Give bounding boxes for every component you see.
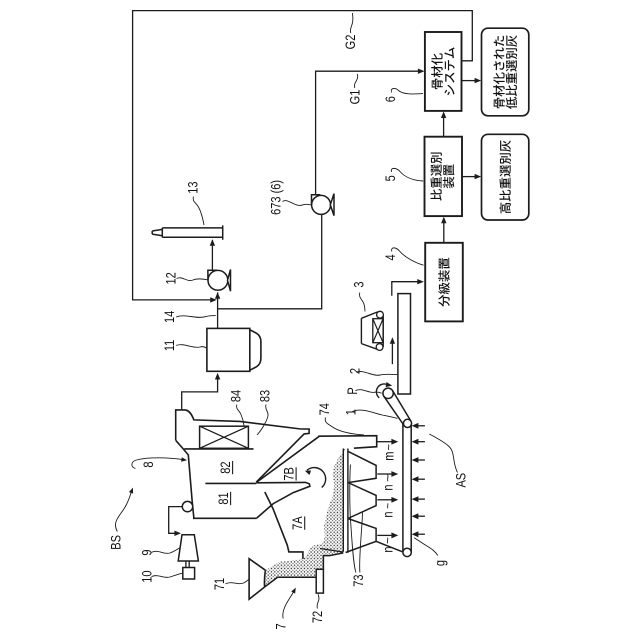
- svg-text:81: 81: [216, 492, 231, 504]
- heat exchanger 84 (crossed box): [200, 426, 249, 448]
- box 6 aggregation system (骨材化システム): [425, 32, 462, 111]
- rounded box high-gravity ash (高比重選別灰): [482, 134, 529, 220]
- chute floor and ram guide outline: [265, 553, 344, 587]
- label AS: [429, 434, 469, 488]
- burner 9: [178, 535, 198, 568]
- svg-text:g: g: [432, 560, 447, 566]
- partition between chambers 81 and 82: [205, 482, 256, 484]
- label 5: [383, 168, 424, 181]
- svg-text:2: 2: [347, 368, 362, 374]
- label 10: [139, 570, 182, 582]
- svg-text:13: 13: [185, 181, 200, 193]
- wire conveyor 2 to classifier 4: [392, 279, 424, 296]
- label g: [414, 538, 448, 566]
- svg-text:AS: AS: [453, 473, 468, 488]
- label 84: [228, 390, 244, 426]
- label 12: [163, 272, 207, 284]
- waste layer bottom boundary line: [320, 549, 343, 553]
- label 1: [343, 409, 397, 418]
- wire duct 14 branch to fan 673: [218, 215, 322, 309]
- label 82: [218, 461, 233, 474]
- front wall 74 and chute 7A wall: [256, 436, 319, 559]
- label G2: [343, 13, 358, 49]
- label m: [381, 445, 396, 461]
- ram 72 (pusher): [316, 569, 323, 593]
- box 5 specific gravity separator (比重選別装置): [425, 137, 463, 216]
- feed table header 74: [318, 436, 376, 449]
- grate conveyor (capsule below furnace): [403, 424, 411, 557]
- label n (3): [380, 538, 395, 553]
- label 11: [162, 340, 206, 351]
- wire arrow box 5 to high-gravity ash box: [462, 174, 481, 179]
- label 3: [351, 281, 366, 311]
- label BS with long arrow: [108, 488, 133, 550]
- svg-text:12: 12: [163, 272, 178, 284]
- svg-text:3: 3: [351, 281, 366, 287]
- svg-text:71: 71: [212, 578, 227, 590]
- furnace 8 boiler outline (top stub and roof): [176, 410, 301, 440]
- feeder 3 (vibrating feeder): [361, 311, 383, 350]
- conveyor 1 (ash discharge conveyor, inclined capsule): [384, 391, 412, 428]
- svg-text:14: 14: [162, 311, 177, 323]
- label 6: [383, 88, 423, 102]
- svg-text:11: 11: [162, 340, 177, 351]
- fan 12 (induced draft fan): [208, 270, 231, 292]
- wire G2 recirculation duct loop: [133, 11, 473, 303]
- label 72: [310, 594, 325, 623]
- label 673(6): [268, 180, 311, 215]
- label 7 with arrow: [273, 588, 296, 630]
- wire arrow separator 5 to aggregation 6: [441, 111, 446, 136]
- rear arch nose 7B (wedge): [256, 482, 310, 518]
- svg-text:G1: G1: [347, 90, 362, 105]
- wire burner air duct: [169, 507, 183, 536]
- furnace roof tip block and inner roof slant: [256, 429, 309, 482]
- svg-text:m: m: [381, 452, 396, 461]
- wire flue duct from dust collector 11 up to fan 12 inlet: [215, 292, 220, 328]
- wire flue furnace 8 to dust collector 11: [182, 373, 221, 410]
- label 7A: [290, 516, 305, 530]
- svg-text:P: P: [345, 387, 360, 394]
- interior ceiling line of boiler pass: [184, 448, 253, 450]
- svg-text:n: n: [380, 511, 395, 517]
- svg-text:82: 82: [218, 461, 233, 473]
- fuel unit 10: [183, 568, 195, 580]
- label G1: [347, 74, 362, 104]
- svg-text:G2: G2: [343, 35, 358, 50]
- label 4: [383, 248, 423, 265]
- secondary air port circle on furnace wall: [182, 501, 192, 511]
- label 2: [347, 368, 397, 375]
- svg-text:7: 7: [273, 623, 288, 629]
- feed hopper 71 (funnel): [249, 559, 265, 600]
- svg-text:72: 72: [310, 611, 325, 623]
- svg-text:8: 8: [141, 461, 156, 467]
- label 81: [216, 492, 231, 505]
- svg-text:4: 4: [383, 254, 398, 260]
- pulley P (head pulley): [383, 388, 393, 398]
- label P: [345, 387, 382, 394]
- label n (2): [380, 503, 395, 517]
- label 83: [257, 390, 273, 435]
- label 9: [139, 548, 179, 556]
- label 71: [212, 578, 249, 590]
- svg-text:73: 73: [351, 574, 366, 586]
- svg-text:5: 5: [383, 175, 398, 181]
- box 4 classifier (分級装置): [425, 243, 463, 322]
- svg-text:BS: BS: [108, 535, 123, 550]
- grate double line: [343, 449, 348, 553]
- svg-text:7B: 7B: [281, 467, 296, 481]
- wire arrow box 6 to aggregated ash box: [462, 78, 482, 83]
- svg-text:7A: 7A: [290, 516, 305, 530]
- waste layer stipple region: [265, 449, 348, 587]
- dust collector 11 (bag filter vessel): [207, 328, 261, 371]
- svg-text:74: 74: [317, 403, 332, 415]
- rotation arrow at pulley P: [376, 382, 392, 398]
- label 13: [185, 181, 204, 225]
- svg-text:6: 6: [383, 96, 398, 102]
- svg-text:n: n: [380, 484, 395, 490]
- windbox hopper bank 73: [346, 451, 403, 552]
- riddlings arrows m / n from hoppers to grate conveyor: [377, 439, 398, 539]
- air supply arrows AS: [412, 423, 425, 537]
- svg-text:84: 84: [228, 390, 243, 402]
- label 7B: [281, 467, 296, 481]
- svg-text:9: 9: [139, 549, 154, 555]
- stack 13 (chimney): [152, 225, 223, 239]
- furnace left wall and bottom: [176, 440, 257, 518]
- label n (1): [380, 474, 395, 490]
- fan 673 (gas extraction fan): [312, 194, 335, 216]
- wire G1 duct from fan 673 to aggregation system 6: [316, 69, 425, 195]
- flow arrow along conveyor 2: [390, 337, 395, 364]
- wire arrow classifier 4 to separator 5: [441, 217, 446, 243]
- label 14: [162, 311, 216, 323]
- rounded box aggregated low-gravity ash (骨材化された低比重選別灰): [482, 28, 529, 116]
- wire fan 12 outlet to stack 13: [210, 239, 215, 269]
- label 74: [317, 403, 364, 435]
- label 8 with arrow to furnace wall: [132, 457, 187, 468]
- svg-text:673 (6): 673 (6): [268, 180, 283, 215]
- label 73 with leaders: [350, 465, 367, 587]
- svg-text:83: 83: [258, 390, 273, 402]
- conveyor 2 (belt conveyor): [398, 294, 411, 394]
- gas circulation arrow in chamber 7B: [305, 468, 326, 488]
